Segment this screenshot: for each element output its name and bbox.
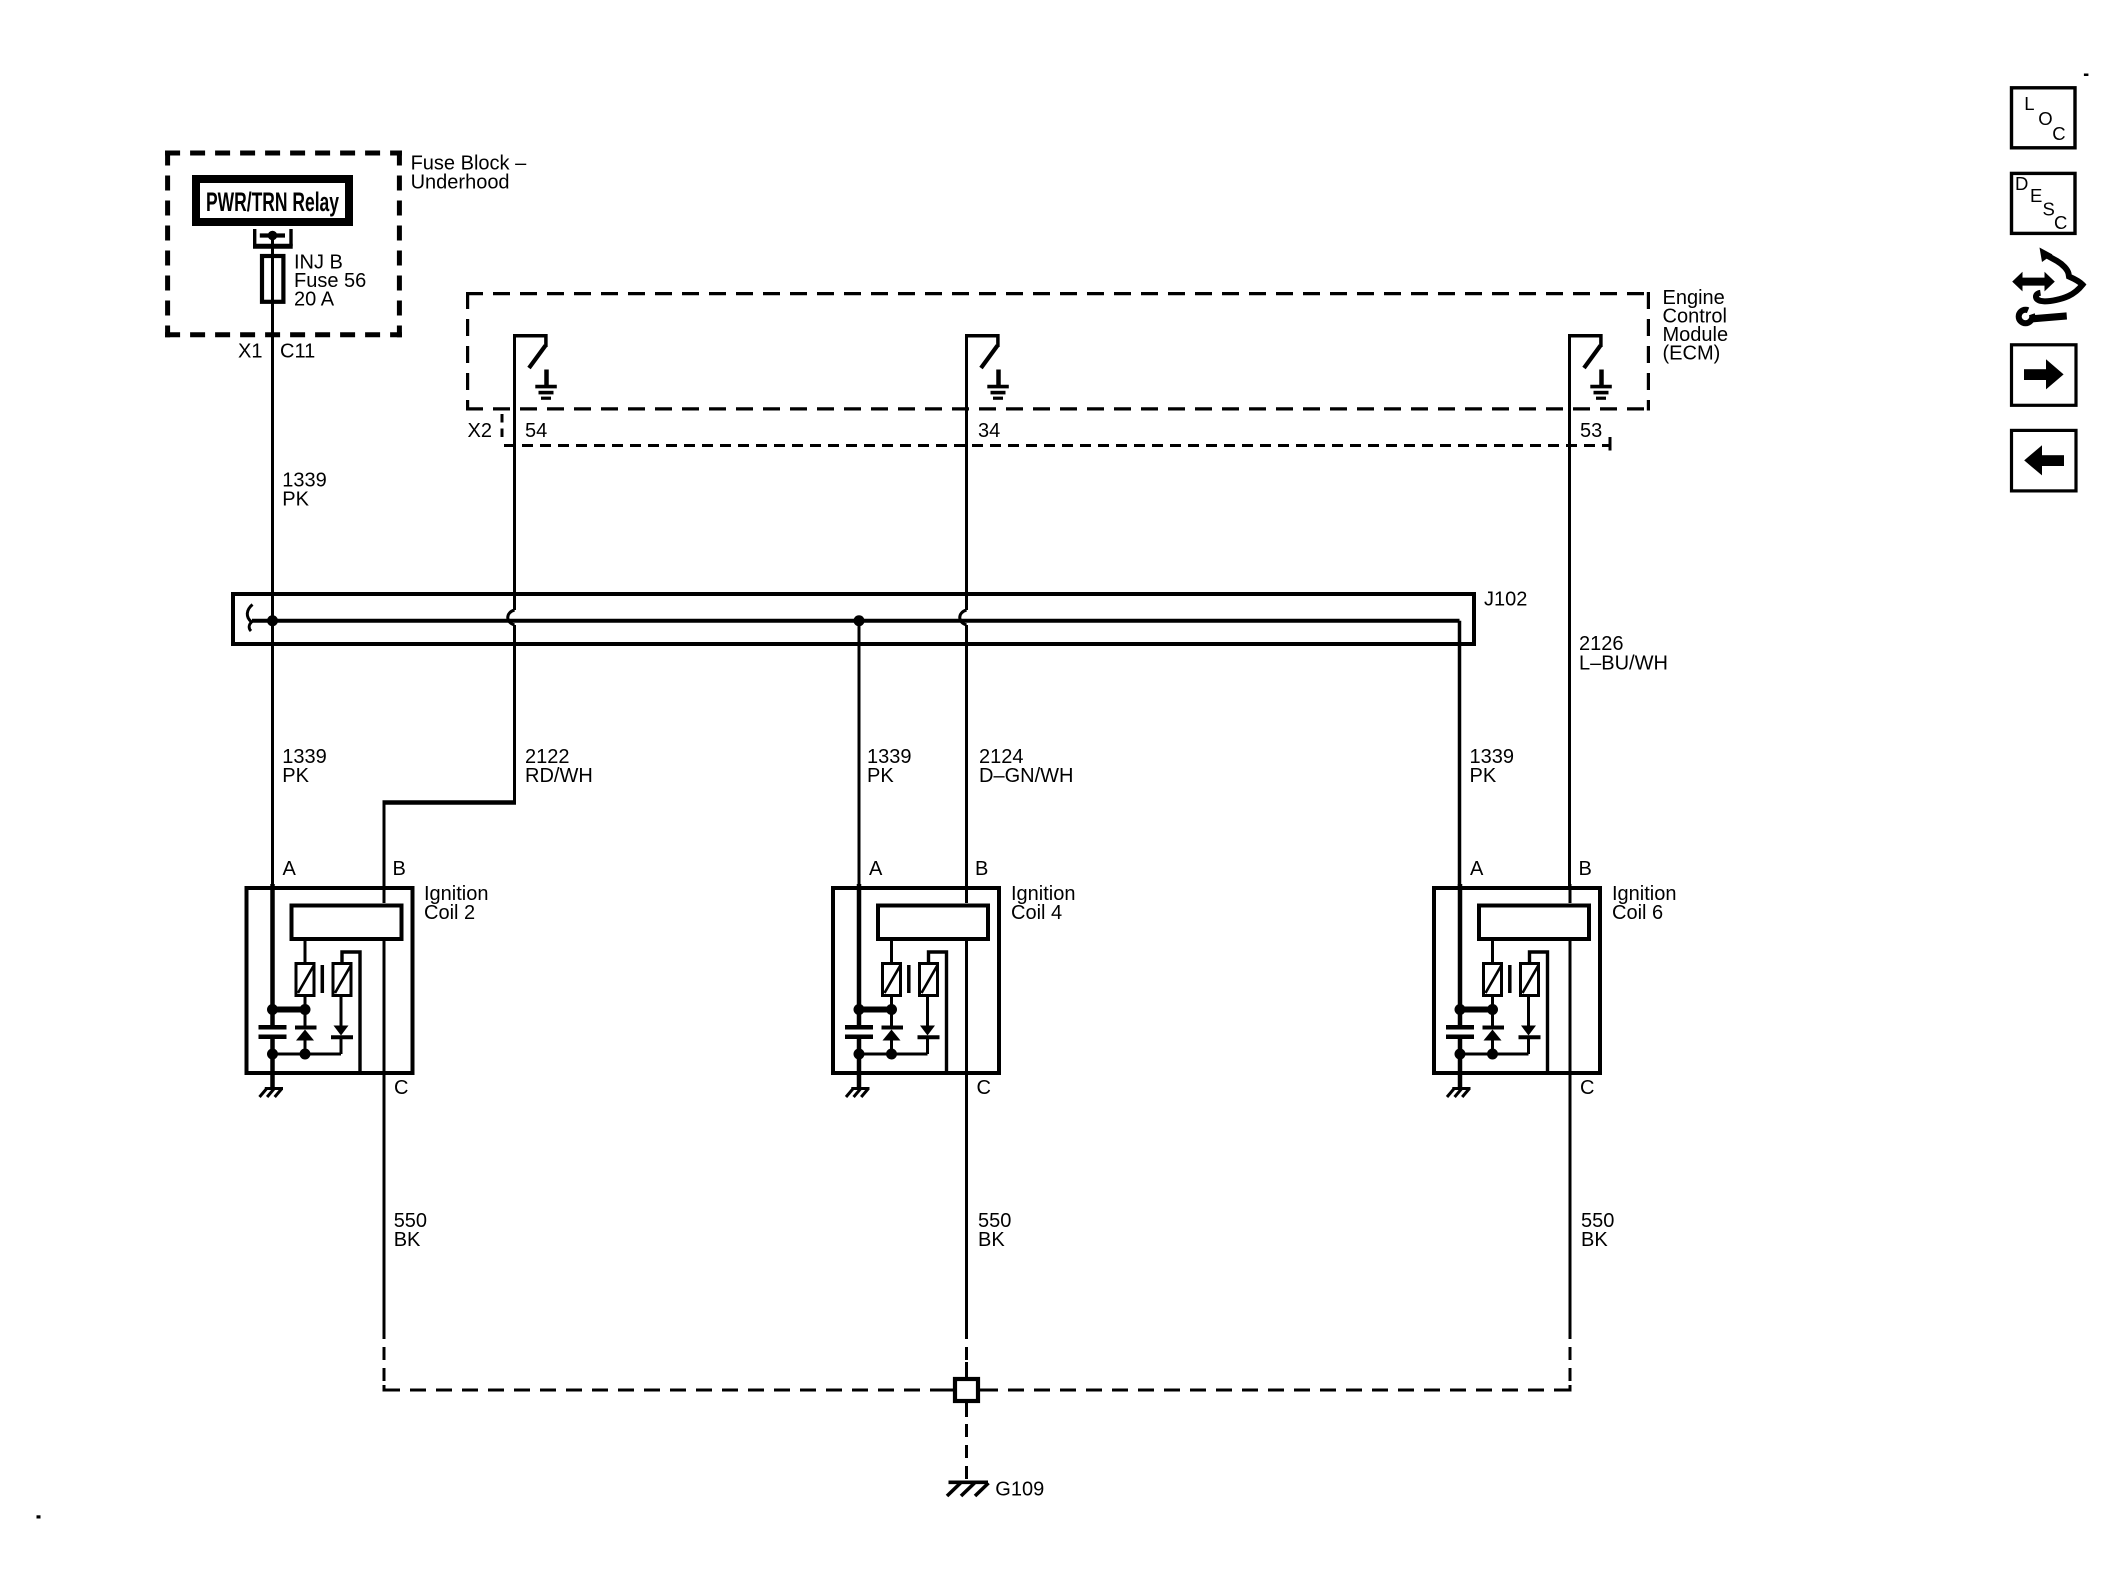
pin C label coil 6 bbox=[1580, 1077, 1594, 1099]
svg-text:34: 34 bbox=[978, 420, 1000, 442]
wire 1339 PK J102 to coil4 A bbox=[858, 621, 861, 886]
fuse block underhood box bbox=[165, 151, 402, 338]
svg-text:RD/WH: RD/WH bbox=[525, 765, 593, 787]
J102 bus line bbox=[247, 605, 1459, 632]
diode 1 coil 4 bbox=[882, 995, 904, 1054]
pin 53 label bbox=[1580, 420, 1602, 442]
resistor 1 coil 2 bbox=[296, 964, 314, 996]
pin B label coil 4 bbox=[975, 858, 988, 880]
resistor 2 coil 6 bbox=[1521, 964, 1539, 996]
wire B into primary coil 6 bbox=[1569, 884, 1572, 903]
svg-text:20 A: 20 A bbox=[294, 289, 335, 311]
icon DESC bbox=[2012, 173, 2076, 234]
chassis ground coil 6 bbox=[1447, 1089, 1471, 1098]
relay K (PWR/TRN Relay) bbox=[196, 179, 349, 222]
ground lead coil 4 bbox=[857, 1054, 862, 1087]
diode 2 coil 6 bbox=[1519, 995, 1541, 1054]
svg-text:S: S bbox=[2043, 199, 2055, 220]
primary winding coil 6 bbox=[1479, 906, 1589, 940]
wire 1339 PK fuse to J102 bbox=[271, 302, 274, 621]
diode 2 coil 2 bbox=[331, 995, 353, 1054]
wire label 1339 PK upper bbox=[282, 470, 327, 511]
divider bar coil 2 bbox=[321, 965, 325, 993]
wire 1339 PK J102 to coil6 A bbox=[1458, 621, 1462, 886]
svg-text:D–GN/WH: D–GN/WH bbox=[979, 765, 1073, 787]
junction dots bottom coil 6 bbox=[1455, 1049, 1499, 1060]
junction dots top coil 6 bbox=[1455, 1004, 1499, 1015]
wire label 2126 L-BU/WH bbox=[1579, 633, 1668, 675]
bottom node wire coil 6 bbox=[1459, 1053, 1529, 1056]
chassis ground coil 2 bbox=[260, 1089, 284, 1098]
wire primary to resistor coil 4 bbox=[890, 941, 893, 963]
svg-text:C: C bbox=[394, 1077, 408, 1099]
ignition coil 4 box bbox=[833, 888, 999, 1073]
svg-text:X2: X2 bbox=[468, 420, 492, 442]
pin B label coil 6 bbox=[1579, 858, 1592, 880]
pin A label coil 4 bbox=[869, 858, 883, 880]
wire 1339 PK J102 to coil2 A bbox=[271, 621, 274, 886]
svg-text:(ECM): (ECM) bbox=[1663, 343, 1721, 365]
J102 label bbox=[1484, 589, 1527, 611]
svg-text:Coil 4: Coil 4 bbox=[1011, 902, 1062, 924]
secondary riser wire coil 6 bbox=[1530, 952, 1548, 1073]
ECM driver pin 34 bbox=[965, 334, 1009, 398]
resistor 2 coil 4 bbox=[920, 964, 938, 996]
svg-text:A: A bbox=[869, 858, 883, 880]
svg-text:C11: C11 bbox=[280, 340, 315, 362]
diode 1 coil 2 bbox=[295, 995, 317, 1054]
bottom node wire coil 4 bbox=[858, 1053, 928, 1056]
icon wiring repair bbox=[2012, 248, 2082, 324]
svg-text:D: D bbox=[2015, 173, 2028, 194]
capacitor coil 4 bbox=[845, 1010, 873, 1054]
primary winding coil 4 bbox=[878, 906, 988, 940]
relay label bbox=[206, 187, 339, 217]
svg-text:BK: BK bbox=[394, 1229, 421, 1251]
wire label 550 BK coil4 bbox=[978, 1210, 1011, 1251]
bottom node wire coil 2 bbox=[272, 1053, 342, 1056]
svg-text:PK: PK bbox=[1470, 765, 1497, 787]
resistor 1 coil 4 bbox=[883, 964, 901, 996]
splice box G109 bbox=[941, 1362, 993, 1417]
svg-text:B: B bbox=[975, 858, 988, 880]
svg-text:PK: PK bbox=[282, 765, 309, 787]
svg-text:B: B bbox=[1579, 858, 1592, 880]
diode 1 coil 6 bbox=[1483, 995, 1505, 1054]
svg-text:PK: PK bbox=[867, 765, 894, 787]
wire A feed inside coil 2 bbox=[270, 884, 275, 1010]
svg-text:O: O bbox=[2038, 108, 2052, 129]
resistor 2 coil 2 bbox=[333, 964, 351, 996]
svg-text:C: C bbox=[2054, 212, 2067, 233]
junction dots bottom coil 2 bbox=[267, 1049, 311, 1060]
svg-text:BK: BK bbox=[1581, 1229, 1608, 1251]
wire primary to resistor coil 2 bbox=[304, 941, 307, 963]
svg-text:PK: PK bbox=[282, 489, 309, 511]
ground G109 label bbox=[995, 1479, 1044, 1501]
fuse 56 label bbox=[294, 252, 366, 311]
ground lead coil 6 bbox=[1458, 1054, 1463, 1087]
ground lead coil 2 bbox=[270, 1054, 275, 1087]
ignition coil 4 label bbox=[1011, 883, 1076, 924]
secondary riser wire coil 4 bbox=[929, 952, 947, 1073]
pin A label coil 2 bbox=[283, 858, 297, 880]
wire 2124 D-GN/WH ECM 34 to coil4 B bbox=[960, 338, 967, 887]
svg-text:Coil 6: Coil 6 bbox=[1612, 902, 1663, 924]
svg-text:BK: BK bbox=[978, 1229, 1005, 1251]
wire A feed inside coil 4 bbox=[857, 884, 862, 1010]
chassis ground coil 4 bbox=[846, 1089, 870, 1098]
wire primary to pin C coil 4 bbox=[965, 941, 968, 1077]
connector X2 label bbox=[468, 420, 492, 442]
svg-text:C: C bbox=[1580, 1077, 1594, 1099]
svg-text:53: 53 bbox=[1580, 420, 1602, 442]
wire label 1339 PK coil4 bbox=[867, 746, 912, 787]
feed tap symbol bbox=[253, 229, 293, 246]
pin 34 label bbox=[978, 420, 1000, 442]
connector X1 C11 labels bbox=[238, 340, 315, 362]
junction dots bottom coil 4 bbox=[854, 1049, 898, 1060]
wire B into primary coil 2 bbox=[383, 884, 386, 903]
svg-text:PWR/TRN Relay: PWR/TRN Relay bbox=[206, 187, 339, 217]
secondary riser wire coil 2 bbox=[342, 952, 360, 1073]
connector X2 line bbox=[504, 437, 1610, 451]
wire 550 BK coil6 C bbox=[1569, 1074, 1572, 1392]
junction dots top coil 4 bbox=[854, 1004, 898, 1015]
speck top right bbox=[2084, 74, 2089, 77]
ECM box bbox=[466, 292, 1650, 411]
ECM driver pin 54 bbox=[513, 334, 557, 398]
svg-text:B: B bbox=[393, 858, 406, 880]
wire splice to G109 bbox=[965, 1403, 968, 1479]
resistor 1 coil 6 bbox=[1484, 964, 1502, 996]
pin A label coil 6 bbox=[1470, 858, 1484, 880]
icon next arrow bbox=[2012, 345, 2077, 406]
fuse block underhood label bbox=[411, 153, 527, 194]
wire tap to fuse bbox=[271, 236, 274, 257]
wire 2126 L-BU/WH ECM 53 to coil6 B bbox=[1568, 338, 1571, 887]
wire label 1339 PK coil6 bbox=[1470, 746, 1515, 787]
ground G109 bbox=[947, 1482, 989, 1496]
svg-text:G109: G109 bbox=[995, 1479, 1044, 1501]
wire primary to pin C coil 2 bbox=[383, 941, 386, 1077]
svg-text:J102: J102 bbox=[1484, 589, 1527, 611]
pin C label coil 2 bbox=[394, 1077, 408, 1099]
svg-text:Underhood: Underhood bbox=[411, 172, 510, 194]
wire label 550 BK coil6 bbox=[1581, 1210, 1614, 1251]
divider bar coil 6 bbox=[1508, 965, 1512, 993]
ignition coil 2 box bbox=[247, 888, 413, 1073]
pin C label coil 4 bbox=[977, 1077, 991, 1099]
junction bar coil 2 bbox=[269, 1007, 310, 1013]
svg-text:C: C bbox=[977, 1077, 991, 1099]
wire label 550 BK coil2 bbox=[394, 1210, 427, 1251]
pin B label coil 2 bbox=[393, 858, 406, 880]
wire 2122 RD/WH ECM 54 to coil2 B bbox=[384, 338, 515, 887]
diode 2 coil 4 bbox=[918, 995, 940, 1054]
pin 54 label bbox=[525, 420, 547, 442]
J102 junction dot wire 1339 bbox=[267, 615, 278, 626]
icon LOC bbox=[2012, 88, 2076, 148]
wire B into primary coil 4 bbox=[965, 884, 968, 903]
J102 junction dot coil4 A bbox=[854, 615, 865, 626]
primary winding coil 2 bbox=[292, 906, 402, 940]
capacitor coil 2 bbox=[259, 1010, 287, 1054]
wire A feed inside coil 6 bbox=[1458, 884, 1463, 1010]
junction dots top coil 2 bbox=[267, 1004, 311, 1015]
svg-text:A: A bbox=[1470, 858, 1484, 880]
junction bar coil 6 bbox=[1456, 1007, 1497, 1013]
ground bus dashed bbox=[384, 1389, 1570, 1392]
ignition coil 6 box bbox=[1434, 888, 1600, 1073]
splice pack J102 bbox=[233, 594, 1474, 644]
wire label 2122 RD/WH bbox=[525, 746, 593, 787]
svg-text:X1: X1 bbox=[238, 340, 262, 362]
icon back arrow bbox=[2012, 430, 2077, 491]
svg-text:A: A bbox=[283, 858, 297, 880]
svg-text:L: L bbox=[2024, 93, 2034, 114]
wire 550 BK coil2 C bbox=[383, 1077, 386, 1392]
svg-text:Coil 2: Coil 2 bbox=[424, 902, 475, 924]
wire label 2124 D-GN/WH bbox=[979, 746, 1073, 787]
fuse 56 (INJ B 20 A) bbox=[262, 256, 283, 302]
capacitor coil 6 bbox=[1446, 1010, 1474, 1054]
svg-text:L–BU/WH: L–BU/WH bbox=[1579, 653, 1668, 675]
junction bar coil 4 bbox=[855, 1007, 896, 1013]
divider bar coil 4 bbox=[907, 965, 911, 993]
wire 550 BK coil4 C bbox=[965, 1077, 968, 1378]
speck bottom left bbox=[37, 1515, 41, 1518]
ignition coil 6 label bbox=[1612, 883, 1677, 924]
ECM driver pin 53 bbox=[1568, 334, 1612, 398]
svg-text:C: C bbox=[2052, 123, 2065, 144]
wire label 1339 PK coil2 bbox=[282, 746, 327, 787]
ignition coil 2 label bbox=[424, 883, 489, 924]
connector X2 divider bbox=[501, 414, 504, 442]
wire primary to resistor coil 6 bbox=[1491, 941, 1494, 963]
ECM label bbox=[1663, 287, 1729, 365]
svg-text:54: 54 bbox=[525, 420, 547, 442]
wire primary to pin C coil 6 bbox=[1569, 941, 1572, 1077]
svg-text:E: E bbox=[2030, 185, 2042, 206]
